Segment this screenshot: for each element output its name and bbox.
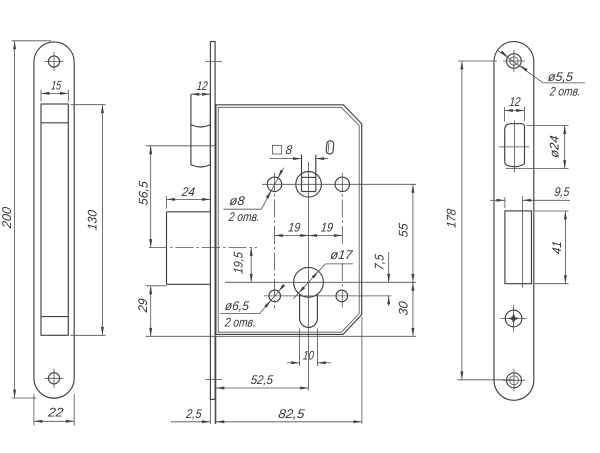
svg-text:30: 30: [396, 301, 410, 316]
dimension 10: [287, 329, 331, 367]
dimension 41: [534, 211, 569, 284]
svg-text:2 отв.: 2 отв.: [548, 85, 581, 99]
dimension 7,5: [373, 252, 391, 306]
faceplate screw centerline ticks: [206, 62, 223, 380]
fixing hole o8 right: [335, 177, 349, 191]
dimension 30: [396, 282, 414, 336]
svg-text:19: 19: [288, 221, 301, 235]
svg-text:2,5: 2,5: [185, 407, 204, 421]
faceplate top screw hole: [503, 50, 525, 72]
dimension 15: [41, 79, 68, 102]
dimension 2,5: [171, 399, 215, 424]
svg-text:29: 29: [136, 298, 150, 314]
dimension 29: [136, 286, 166, 337]
left plate top screw hole: [45, 52, 64, 71]
label o17: [294, 248, 355, 299]
dimension 82,5: [216, 317, 362, 424]
svg-text:200: 200: [0, 206, 14, 229]
svg-text:ø17: ø17: [330, 248, 354, 262]
svg-text:130: 130: [86, 209, 100, 230]
svg-text:ø24: ø24: [548, 135, 562, 158]
faceplate edge strip: [210, 42, 215, 400]
fixing hole o8 left: [267, 177, 281, 191]
lower hole o6,5 left: [269, 290, 281, 302]
faceplate bottom screw hole: [503, 369, 525, 391]
svg-text:9,5: 9,5: [554, 185, 571, 199]
svg-text:19,5: 19,5: [231, 250, 245, 274]
lower hole o6,5 right: [336, 290, 348, 302]
dimension o24: [506, 126, 569, 169]
right holes vertical centerline: [341, 173, 343, 308]
hub keyhole vertical centerline: [308, 162, 310, 391]
svg-text:12: 12: [196, 79, 208, 93]
dimension 55: [397, 184, 415, 282]
svg-text:55: 55: [397, 221, 411, 237]
svg-text:41: 41: [550, 240, 564, 254]
dimension 19,5: [231, 248, 252, 283]
left plate slot: [41, 104, 68, 335]
bottom extension line: [146, 335, 416, 337]
label o6,5 2 holes: [220, 284, 285, 330]
dimension 12 faceplate: [505, 95, 525, 121]
dimension 200: [0, 41, 51, 398]
svg-text:ø6,5: ø6,5: [224, 299, 250, 313]
dimension 19 19: [275, 221, 343, 237]
svg-text:22: 22: [47, 406, 65, 420]
rear box: [167, 212, 211, 284]
left holes vertical centerline: [274, 173, 276, 308]
cylinder cutout: [505, 196, 532, 288]
left plate bottom screw hole: [45, 369, 64, 388]
svg-text:82,5: 82,5: [278, 407, 306, 421]
dimension 56,5: [137, 146, 216, 248]
stop pin oval: [326, 141, 334, 155]
svg-text:56,5: 56,5: [137, 179, 151, 205]
label o5,5 2 holes: [497, 50, 585, 98]
dimension 52,5: [216, 337, 309, 425]
svg-text:ø5,5: ø5,5: [547, 70, 574, 84]
left cover plate outline: [34, 42, 74, 398]
square 8 label: [269, 143, 328, 160]
phillips screw: [500, 305, 526, 331]
dimension 12 latch: [191, 79, 211, 96]
spindle hub: [296, 155, 322, 198]
dimension 130: [71, 105, 106, 336]
latch bolt front view: [499, 121, 530, 173]
dimension 9,5: [490, 185, 571, 208]
svg-text:52,5: 52,5: [250, 373, 274, 387]
box centerline: [149, 247, 257, 249]
euro cylinder keyhole: [294, 267, 324, 327]
upper holes centerline: [262, 183, 416, 185]
lock body outline: [216, 105, 362, 335]
dimension 178: [444, 61, 514, 380]
svg-text:19: 19: [320, 221, 333, 235]
svg-text:2 отв.: 2 отв.: [223, 316, 256, 330]
svg-text:ø8: ø8: [229, 194, 245, 208]
svg-text:2 отв.: 2 отв.: [227, 210, 260, 224]
svg-text:178: 178: [444, 208, 458, 228]
latch bolt side view: [191, 94, 211, 167]
lower holes centerline: [264, 295, 392, 297]
svg-text:10: 10: [302, 349, 314, 363]
label o8 2 holes: [224, 168, 284, 224]
svg-text:7,5: 7,5: [373, 253, 387, 271]
dimension 24: [167, 185, 211, 209]
lock body inner contour: [218, 107, 359, 332]
dimension 22: [34, 394, 74, 426]
faceplate outline: [494, 42, 534, 401]
keyhole horizontal centerline: [225, 281, 416, 283]
svg-text:24: 24: [180, 185, 195, 199]
svg-text:12: 12: [509, 95, 521, 109]
